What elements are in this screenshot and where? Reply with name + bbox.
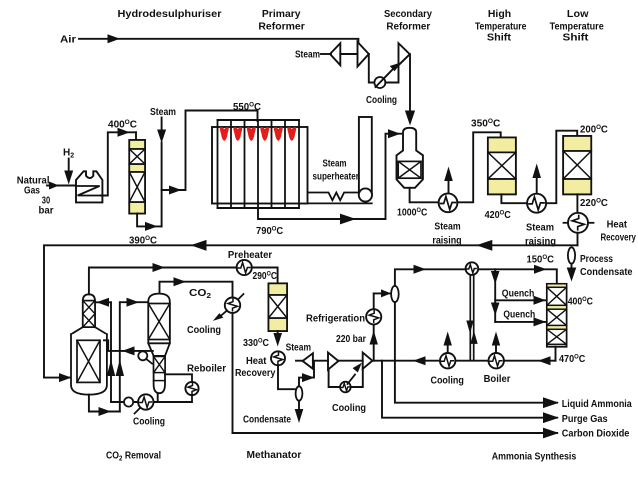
steam raising exchanger 2 [527, 194, 546, 213]
wire refrigeration riser [373, 293, 375, 360]
label Process Condensate [580, 254, 633, 278]
arrow quench 2 [534, 317, 547, 326]
wire stripper bottoms stub [157, 393, 159, 402]
arrow feed line 1 [414, 265, 427, 274]
svg-text:550OC: 550OC [233, 102, 261, 114]
syngas compressor stage 1 [328, 353, 338, 370]
arrow H2 down [64, 171, 73, 185]
HTS vessel [488, 138, 516, 195]
refrigeration exchanger [366, 309, 381, 324]
primary reformer furnace box [212, 127, 308, 204]
wire to ammonia separator [374, 292, 390, 294]
svg-text:Refrigeration: Refrigeration [306, 314, 365, 325]
wire reformer outlet 790C [258, 134, 401, 219]
pump stub [146, 359, 152, 364]
wire shaft T1-T2 [340, 53, 357, 55]
arrow refrigeration riser up [370, 331, 378, 345]
svg-text:superheater: superheater [313, 171, 359, 182]
arrow absorber bottoms [99, 407, 112, 416]
svg-text:Condensate: Condensate [243, 414, 291, 425]
flue stack [359, 117, 372, 195]
arrow quench 1 [534, 296, 547, 305]
stripper taper [148, 343, 170, 356]
svg-text:470OC: 470OC [559, 354, 585, 366]
arrow steam join [157, 130, 166, 144]
wire condensate out [298, 401, 300, 410]
svg-text:200OC: 200OC [580, 124, 608, 136]
arrow feed line 2 [534, 265, 547, 274]
svg-text:Primary: Primary [262, 9, 301, 20]
lean cooler [135, 394, 154, 413]
wire rich riser to stripper [120, 302, 147, 411]
svg-text:330OC: 330OC [243, 338, 269, 350]
wire intercooler loop up [385, 65, 398, 82]
label Steam raising 2 [525, 223, 556, 248]
absorber shoulders [71, 327, 107, 334]
wire shaft [313, 360, 328, 362]
reformer bottom header [218, 207, 300, 209]
svg-text:Ammonia Synthesis: Ammonia Synthesis [492, 451, 577, 462]
process condensate separator [568, 247, 575, 263]
svg-text:Recovery: Recovery [235, 368, 276, 379]
loop cooler [440, 353, 455, 368]
wire steam stub turbine [296, 360, 304, 362]
svg-text:Methanator: Methanator [247, 450, 302, 461]
arrow CO2 overhead [174, 277, 187, 286]
svg-text:Recovery: Recovery [600, 232, 636, 243]
arrow lean riser up [107, 360, 115, 377]
svg-text:Shift: Shift [563, 33, 590, 44]
svg-text:Condensate: Condensate [580, 267, 633, 278]
svg-text:Reformer: Reformer [386, 21, 430, 32]
arrow rich riser up [116, 360, 124, 377]
heater coil [77, 186, 100, 196]
svg-text:Purge Gas: Purge Gas [562, 414, 608, 425]
arrow methanator outlet down [273, 333, 282, 347]
arrow boiler up [492, 332, 500, 353]
wire carbon dioxide line [233, 432, 558, 434]
CO2 cooler [225, 294, 244, 313]
arrow separator gas [302, 373, 315, 382]
air compressor T2 [358, 42, 369, 67]
arrow absorber overhead [153, 263, 166, 272]
wire HTS outlet [501, 194, 527, 203]
arrow long line right [476, 240, 492, 251]
wire separator gas to converter feed [395, 269, 557, 286]
svg-text:Cooling: Cooling [332, 403, 366, 414]
svg-text:Carbon Dioxide: Carbon Dioxide [562, 429, 630, 440]
methanator vessel [269, 283, 288, 331]
wire reboiler return [191, 395, 193, 402]
wire heat recovery down [577, 233, 579, 246]
wire separator gas to compressor [299, 361, 314, 386]
wire intercooler to stage 2 [351, 369, 363, 387]
svg-text:220OC: 220OC [580, 198, 608, 210]
wire superheater line with W coil [308, 193, 360, 201]
svg-text:Low: Low [567, 9, 589, 20]
arrow quench down 1 [491, 271, 500, 284]
arrow loop cooler up [444, 332, 452, 353]
arrow Carbon Dioxide [543, 428, 559, 439]
arrow semi-lean [122, 346, 135, 355]
svg-text:Secondary: Secondary [384, 9, 433, 20]
wire lean solvent into absorber top [96, 301, 111, 303]
reformer tubes [218, 120, 300, 208]
svg-text:Temperature: Temperature [475, 21, 527, 32]
title High Temperature Shift [475, 9, 527, 43]
arrow recycle left [413, 356, 426, 365]
svg-text:400OC: 400OC [568, 296, 593, 308]
svg-text:Cooling: Cooling [187, 325, 221, 336]
svg-text:Temperature: Temperature [550, 21, 604, 32]
title Low Temperature Shift [550, 9, 604, 43]
reformer top header [218, 119, 300, 121]
wire condensate down [571, 264, 573, 269]
svg-text:Reformer: Reformer [258, 21, 305, 32]
wire absorber bottoms [89, 395, 120, 412]
steam raising exchanger 1 [439, 193, 458, 212]
title Primary Reformer [258, 9, 305, 32]
arrow steam raising 1 up [444, 167, 453, 194]
reboiler exchanger [185, 382, 198, 395]
wire lean riser [110, 302, 112, 402]
label Heat Recovery (methanator) [235, 356, 276, 379]
stripper top section [148, 294, 170, 344]
svg-text:Quench: Quench [502, 289, 535, 300]
cooling annotation arrow SW [213, 311, 227, 321]
wire quench branch [494, 269, 496, 322]
hydrodesulphuriser vessel [129, 140, 145, 214]
arrow quench down 2 [491, 303, 500, 316]
cooling annotation arrow NE syngas [348, 363, 362, 384]
wire air pipe inside neck [409, 129, 411, 138]
svg-text:150OC: 150OC [527, 254, 555, 266]
arrow 790C line [340, 214, 356, 225]
arrow on air line [108, 34, 121, 43]
air compressor T3 [399, 43, 410, 65]
syngas compressor stage 2 [363, 353, 373, 369]
svg-text:Quench: Quench [503, 309, 535, 320]
svg-text:790OC: 790OC [256, 225, 283, 237]
arrow into ammonia separator [381, 289, 391, 297]
wire quench line 2 [495, 321, 546, 323]
wire air to secondary reformer [409, 54, 411, 112]
arrow rich into stripper [127, 298, 140, 307]
lean pump [124, 397, 133, 406]
svg-text:Cooling: Cooling [366, 95, 397, 106]
arrow air into secondary reformer [405, 111, 415, 126]
wire steam stub [321, 53, 331, 55]
flue fan circle [359, 188, 372, 201]
wire semi-lean to absorber [104, 340, 153, 351]
wire lean bottom line [111, 401, 192, 403]
wire preheater to methanator [252, 268, 278, 285]
svg-text:Steam: Steam [295, 49, 320, 60]
svg-text:1000OC: 1000OC [397, 207, 427, 219]
wire liquid ammonia line [395, 302, 557, 403]
arrow mixed feed [169, 186, 182, 195]
svg-text:Preheater: Preheater [228, 250, 272, 261]
svg-text:Process: Process [580, 254, 613, 265]
wire mixed feed to reformer [162, 111, 258, 191]
wire absorber overhead to preheater [89, 268, 237, 295]
wire syngas intercooler loop [329, 370, 341, 387]
svg-text:CO2 Removal: CO2 Removal [106, 450, 161, 462]
burner flames [220, 127, 296, 141]
heat recovery exchanger (methanator) [271, 351, 285, 365]
absorber packing bed [77, 340, 100, 382]
wire outlet 1000C [410, 188, 439, 203]
ammonia separator [391, 286, 399, 302]
wire stub into HDS [135, 132, 137, 141]
arrow long line left [191, 240, 207, 251]
wire natural gas feed [47, 185, 76, 187]
svg-text:Air: Air [60, 35, 76, 46]
label Heat Recovery (LTS) [600, 219, 636, 243]
svg-text:Steam: Steam [434, 222, 460, 233]
feed/effluent interchanger [466, 262, 479, 360]
arrow converter outlet left [538, 356, 551, 365]
wire long gas line to absorber [44, 245, 578, 377]
syngas intercooler [340, 382, 351, 393]
ammonia converter [547, 284, 567, 347]
wire air feed line [79, 39, 358, 42]
LTS vessel [563, 136, 591, 194]
svg-text:Cooling: Cooling [430, 376, 464, 387]
wire methanator outlet [277, 331, 279, 334]
loop boiler [489, 353, 504, 368]
arrow condensate down [295, 409, 304, 423]
secondary reformer vessel [397, 128, 423, 188]
label Steam superheater [313, 158, 359, 182]
wire flue duct bottom [308, 202, 372, 204]
absorber top section [83, 294, 95, 327]
svg-text:Steam: Steam [150, 107, 176, 118]
svg-text:High: High [488, 9, 511, 20]
svg-text:Liquid Ammonia: Liquid Ammonia [562, 399, 632, 410]
wire reboiler draw [165, 374, 192, 382]
syngas turbine (left triangle) [303, 353, 313, 369]
arrow HDS outlet [145, 222, 158, 231]
svg-text:350OC: 350OC [471, 118, 500, 130]
svg-text:Steam: Steam [323, 158, 347, 169]
svg-text:bar: bar [39, 206, 54, 217]
svg-text:Steam: Steam [286, 342, 311, 353]
arrow process condensate [567, 268, 577, 282]
wire intercooler loop down [369, 54, 375, 83]
svg-text:Shift: Shift [487, 33, 512, 44]
wire HDS bottom outlet [137, 214, 162, 227]
arrow steam raising 2 up [532, 164, 541, 194]
arrow into absorber [59, 373, 72, 382]
wire H2 line [68, 159, 70, 173]
wire quench line 1 [495, 299, 546, 301]
secondary reformer catalyst box [398, 161, 421, 178]
semi-lean pump [138, 351, 147, 360]
wire LTS outlet [576, 194, 578, 213]
cooling annotation arrow NE [376, 62, 402, 87]
arrow into HDS top [118, 128, 131, 137]
arrow into secondary reformer neck [388, 129, 401, 138]
svg-text:420OC: 420OC [485, 210, 511, 222]
absorber bottom section [71, 334, 107, 394]
wire converter outlet [555, 347, 557, 361]
arrow natural gas [49, 182, 59, 190]
stripper bottom section [154, 356, 165, 393]
arrow Liquid Ammonia [543, 397, 559, 408]
svg-text:Cooling: Cooling [133, 416, 165, 427]
wire to syngas separator [278, 365, 296, 389]
arrow lean into absorber [97, 298, 110, 307]
wire steam down [161, 118, 163, 131]
wire to LTS [546, 131, 577, 204]
wire between stages [338, 360, 362, 362]
steam turbine T1 [330, 43, 340, 65]
wire to HTS [457, 132, 500, 202]
svg-text:Heat: Heat [246, 356, 267, 367]
syngas separator [296, 386, 303, 400]
wire stripper CO2 overhead [160, 282, 233, 433]
svg-text:Heat: Heat [607, 219, 628, 230]
wire heater outlet riser 400C [100, 132, 136, 195]
wire synthesis loop main line [372, 360, 555, 362]
arrow Purge Gas [543, 412, 559, 423]
svg-text:Hydrodesulphuriser: Hydrodesulphuriser [118, 9, 222, 20]
wire purge gas line [382, 361, 557, 418]
svg-text:220 bar: 220 bar [336, 334, 366, 345]
title Secondary Reformer [384, 9, 433, 32]
svg-text:Gas: Gas [24, 186, 40, 197]
svg-text:Boiler: Boiler [484, 374, 511, 385]
air intercooler circle [374, 77, 385, 88]
label Natural Gas 30 bar [17, 175, 54, 216]
heat recovery exchanger (LTS) [564, 213, 594, 233]
svg-text:290OC: 290OC [253, 270, 278, 282]
svg-text:Steam: Steam [526, 223, 554, 234]
wire mixed feed riser [161, 143, 163, 227]
svg-text:Reboiler: Reboiler [187, 363, 226, 374]
svg-text:400OC: 400OC [108, 119, 137, 131]
preheater exchanger [237, 260, 252, 275]
feed heater vessel [76, 171, 102, 202]
label Steam raising 1 [432, 222, 461, 247]
